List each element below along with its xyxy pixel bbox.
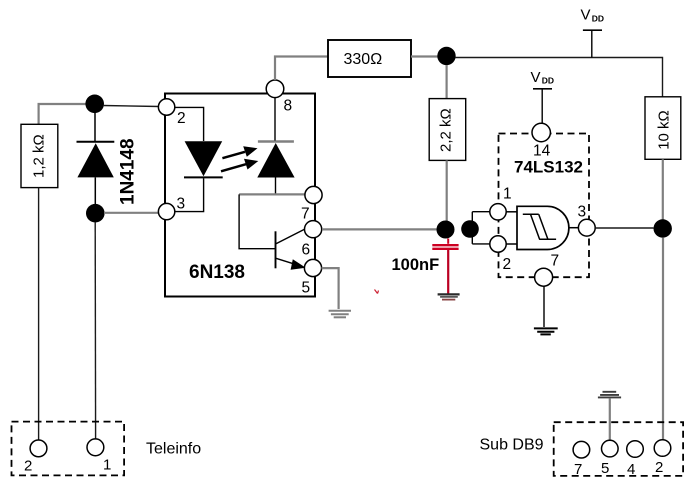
Sub DB9 pin 7 circle — [573, 441, 590, 458]
svg-text:V: V — [581, 7, 591, 24]
inverted ground above Sub DB9 pin 5 — [598, 392, 621, 441]
svg-text:V: V — [531, 69, 541, 86]
IC U2 74LS132 dashed box — [499, 134, 590, 278]
node B (junction dot left lower) — [86, 204, 105, 223]
connector J1 Teleinfo dashed box — [12, 422, 125, 476]
resistor R4 2,2 kOhm — [429, 99, 466, 161]
resistor R3 10 kOhm — [645, 97, 681, 160]
wire photodiode to pin 7 — [239, 193, 306, 195]
wire pin7 node to transistor base — [239, 194, 275, 248]
pin 14 circle — [532, 123, 550, 141]
ground below pin 7 — [534, 328, 558, 334]
wire node D to Sub DB9 pin 2 — [662, 238, 664, 440]
pin 8 circle — [266, 80, 284, 98]
resistor R1 1,2 kOhm — [21, 124, 58, 187]
gate output wire — [569, 227, 579, 229]
power VDD top right — [581, 7, 605, 58]
node A (junction dot top-left) — [85, 95, 104, 114]
pin 2 circle (gate) — [490, 236, 506, 252]
wire R3 to node D — [662, 159, 664, 220]
diode D1 1N4148 — [77, 112, 115, 205]
wire pin2 to LED — [175, 107, 204, 141]
svg-text:6: 6 — [302, 242, 311, 259]
svg-text:7: 7 — [574, 461, 582, 478]
svg-text:DD: DD — [592, 13, 604, 23]
svg-text:1: 1 — [103, 457, 111, 474]
optocoupler U1 6N138 box — [165, 94, 315, 297]
wire R4 to node E — [446, 160, 448, 221]
svg-text:Sub DB9: Sub DB9 — [480, 437, 544, 454]
svg-text:100nF: 100nF — [392, 256, 440, 274]
svg-text:3: 3 — [578, 204, 587, 221]
ground below capacitor — [438, 294, 460, 299]
svg-text:2: 2 — [655, 459, 663, 476]
svg-text:1,2 kΩ: 1,2 kΩ — [31, 134, 48, 178]
wire node A to 6N138 pin 2 — [103, 106, 159, 107]
NAND gate U2A body — [517, 206, 569, 249]
Teleinfo pin 1 circle — [87, 439, 104, 456]
svg-text:2,2 kΩ: 2,2 kΩ — [438, 108, 455, 152]
wire pin 2 to gate input — [506, 243, 517, 245]
wire pin 8 to resistor 330 — [275, 57, 328, 81]
svg-text:6N138: 6N138 — [189, 262, 245, 283]
svg-text:2: 2 — [24, 458, 32, 475]
svg-text:8: 8 — [284, 98, 293, 115]
power VDD above pin 14 — [531, 69, 555, 123]
wire node B to 6N138 pin 3 — [104, 212, 158, 214]
wire node F fork to gate inputs — [472, 212, 490, 244]
wire node B to Teleinfo pin 1 — [94, 222, 96, 439]
svg-text:5: 5 — [601, 460, 609, 477]
wire pin 3 to node D — [595, 227, 653, 229]
pin 3 circle (gate) — [578, 219, 595, 236]
light arrow 1 — [222, 146, 257, 158]
ground below pin 5 — [329, 311, 351, 318]
svg-text:1: 1 — [503, 186, 512, 203]
Sub DB9 pin 2 circle — [654, 440, 671, 457]
hysteresis symbol — [523, 214, 556, 239]
node C (junction dot top) — [437, 47, 455, 65]
svg-text:1N4148: 1N4148 — [118, 138, 139, 205]
photodiode in 6N138 — [257, 97, 294, 194]
wire pin 5 to ground — [322, 268, 339, 309]
wire pin 6 to node E — [322, 228, 437, 230]
light arrow 2 — [221, 159, 258, 172]
svg-text:7: 7 — [301, 206, 310, 223]
svg-text:3: 3 — [177, 196, 186, 213]
node F (junction dot at gate input) — [461, 220, 479, 238]
Teleinfo pin 2 circle — [30, 440, 47, 457]
svg-text:5: 5 — [302, 280, 311, 297]
connector J2 Sub DB9 dashed box — [554, 422, 683, 476]
red artifact mark — [375, 290, 379, 294]
svg-text:330Ω: 330Ω — [344, 51, 383, 68]
Sub DB9 pin 5 circle — [602, 440, 619, 457]
node D (junction dot right) — [654, 219, 672, 237]
wire node C to R4 — [446, 65, 448, 99]
pin 7 circle — [305, 186, 322, 203]
wire R1 bottom to Teleinfo pin 2 — [38, 188, 40, 440]
pin 1 circle — [490, 204, 506, 220]
Sub DB9 pin 4 circle — [627, 441, 644, 458]
svg-text:74LS132: 74LS132 — [514, 158, 583, 177]
svg-text:7: 7 — [551, 253, 560, 270]
wire pin 7 to ground — [543, 286, 545, 327]
wire from R1 top to node A — [39, 104, 90, 125]
wire pin 1 to gate input — [506, 211, 517, 213]
svg-text:14: 14 — [533, 143, 551, 160]
transistor Q1 in 6N138 — [276, 229, 306, 270]
svg-text:2: 2 — [503, 256, 512, 273]
pin 5 circle — [304, 259, 321, 276]
resistor R2 330 Ohm — [328, 40, 411, 77]
pin 2 circle — [158, 99, 174, 115]
wire R2 to node C — [411, 55, 438, 57]
pin 3 circle — [158, 203, 174, 219]
pin 7 circle (gate) — [535, 268, 553, 286]
svg-text:4: 4 — [627, 461, 635, 478]
pin 6 circle — [305, 221, 322, 238]
capacitor C1 100nF — [432, 239, 458, 294]
svg-text:DD: DD — [542, 76, 554, 86]
wire node C to top right corner — [455, 58, 663, 98]
svg-text:10 kΩ: 10 kΩ — [656, 110, 673, 150]
node E (junction dot at capacitor) — [437, 221, 455, 239]
svg-text:2: 2 — [177, 110, 186, 127]
LED (emitter diode) in 6N138 — [175, 141, 223, 211]
svg-text:Teleinfo: Teleinfo — [146, 441, 201, 458]
